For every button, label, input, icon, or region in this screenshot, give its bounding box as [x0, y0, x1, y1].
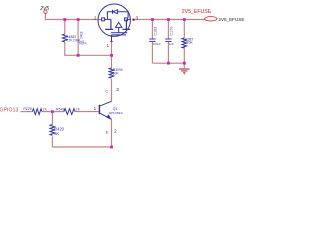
- wire branch A vertical lower (R4883 to bottom rail): [64, 42, 66, 55]
- wire cap C163 branch lower: [151, 41, 153, 63]
- offpage connector 2V5 (top-left): [39, 6, 49, 13]
- svg-text:100nF: 100nF: [153, 42, 161, 46]
- resistor R4883: [63, 34, 68, 42]
- node C170 gnd rail: [167, 62, 170, 65]
- body diode triangle: [113, 10, 118, 14]
- resistor R3090: [109, 68, 114, 78]
- emitter lead: [99, 113, 111, 119]
- wire cap C170 branch upper: [167, 20, 169, 40]
- svg-text:0402: 0402: [80, 31, 84, 39]
- wire R420 top to GPIO row: [51, 112, 53, 125]
- wire R3090 to Q1 collector: [111, 79, 113, 102]
- svg-text:C170: C170: [169, 27, 173, 36]
- svg-text:1: 1: [107, 43, 110, 48]
- mosfet U/Q2 body circle: [98, 4, 130, 36]
- pin square right: [125, 18, 128, 21]
- wire gate bottom rail horizontal: [64, 54, 111, 56]
- svg-text:100K: 100K: [185, 41, 193, 45]
- wire GPIO13 to R225: [21, 111, 33, 113]
- wire cap C170 branch lower: [167, 41, 169, 63]
- resistor R420: [50, 125, 55, 136]
- base bar: [98, 105, 100, 114]
- svg-text:3: 3: [116, 87, 119, 92]
- wire gnd rail bottom right: [152, 62, 184, 64]
- svg-text:C163: C163: [153, 27, 157, 36]
- node gate rail meets gate column: [110, 54, 113, 57]
- contact right: [122, 19, 130, 29]
- wire R387 branch upper: [183, 20, 185, 39]
- bulk arrow: [116, 22, 122, 27]
- svg-text:2V5_EFUSE: 2V5_EFUSE: [218, 17, 244, 22]
- resistor R548: [64, 109, 75, 115]
- svg-text:TBLP.P: TBLP.P: [79, 43, 87, 46]
- node R387 tap: [183, 18, 186, 21]
- svg-text:10K: 10K: [113, 71, 120, 75]
- svg-text:3K: 3K: [54, 131, 59, 136]
- ground symbol: [179, 69, 190, 74]
- node C170 tap: [167, 18, 170, 21]
- svg-text:NPN-BEC: NPN-BEC: [109, 111, 124, 115]
- wire net styles: [21, 13, 205, 147]
- wire R387 branch lower: [183, 46, 185, 63]
- emitter arrow: [106, 114, 111, 119]
- svg-text:1uF: 1uF: [169, 42, 174, 46]
- wire gate column (junction to R3090): [111, 55, 113, 68]
- resistor R387: [182, 38, 187, 48]
- svg-text:R225: R225: [23, 107, 32, 111]
- wire Q1 emitter down: [111, 119, 113, 147]
- wire R420 bottom to rail: [51, 137, 53, 148]
- wire R548 to Q1 base: [75, 111, 99, 113]
- body diode bracket: [107, 12, 128, 20]
- collector lead: [99, 101, 111, 106]
- wire R225 to junction: [42, 111, 52, 113]
- node emitter bottom rail: [110, 146, 113, 149]
- wire gnd stub: [183, 63, 185, 68]
- wire junction to R548: [52, 111, 64, 113]
- svg-text:1K: 1K: [43, 108, 48, 112]
- svg-text:C: C: [105, 89, 108, 94]
- transistor Q1: [99, 101, 111, 119]
- svg-text:1: 1: [94, 106, 97, 111]
- svg-text:E: E: [106, 129, 109, 134]
- wire bottom rail: [52, 146, 111, 148]
- svg-text:R548: R548: [56, 108, 65, 112]
- body diode bar: [112, 10, 114, 14]
- node C163 tap: [151, 18, 154, 21]
- wire branch B vertical (jumper): [77, 20, 79, 56]
- svg-text:2V5_EFUSE: 2V5_EFUSE: [182, 9, 212, 15]
- svg-text:GPIO13: GPIO13: [0, 107, 19, 113]
- channel line: [111, 32, 127, 34]
- junction dots: [51, 18, 186, 148]
- node GPIO row R420 tap: [51, 110, 54, 113]
- pin end tick pin3: [132, 19, 134, 21]
- resistor R225: [32, 109, 42, 115]
- wire cap C163 branch upper: [151, 20, 153, 40]
- wire top rail left (2V5 to Q2 pin2): [45, 19, 102, 21]
- node bottom of branch B: [77, 54, 80, 57]
- pin end tick gate: [110, 41, 112, 42]
- svg-text:2V5: 2V5: [39, 6, 49, 12]
- svg-text:2: 2: [114, 128, 117, 133]
- capacitor C170: [165, 39, 171, 41]
- contact left: [105, 19, 113, 29]
- offpage connector 2V5_EFUSE: [205, 17, 217, 21]
- wire 2V5 stub vertical: [44, 13, 46, 19]
- wire gate column upper (pin1 to junction): [111, 42, 113, 56]
- mosfet internals: [102, 10, 131, 41]
- pin square left: [102, 18, 105, 21]
- node top rail A: [63, 18, 66, 21]
- wire top rail right (Q2 pin3 to connector): [134, 19, 204, 21]
- node top rail B: [77, 18, 80, 21]
- gate line: [112, 35, 127, 41]
- svg-text:1K: 1K: [76, 108, 81, 112]
- capacitor C163: [149, 39, 155, 41]
- lead right: [128, 18, 131, 20]
- lead left: [105, 18, 111, 20]
- wire branch A vertical upper (to R4883): [64, 20, 66, 35]
- node R387 gnd rail: [183, 62, 186, 65]
